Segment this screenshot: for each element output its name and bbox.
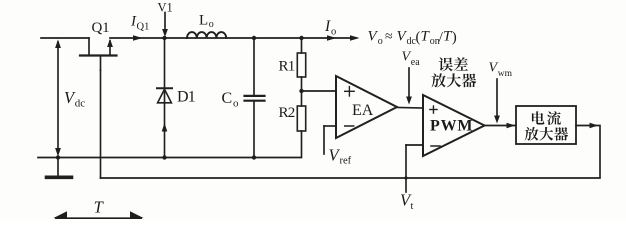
arrow IQ1 on rail (133, 35, 143, 40)
arrow T right (130, 211, 144, 219)
svg-text:t: t (411, 201, 414, 212)
resistor R2 (297, 106, 305, 131)
node Vea arrow (408, 68, 410, 100)
wire top rail left (41, 37, 89, 39)
svg-text:dc: dc (75, 98, 86, 110)
arrow Io on rail (327, 35, 337, 40)
inductor Lo (187, 32, 226, 38)
svg-text:o: o (233, 98, 239, 110)
wire top rail right (110, 37, 356, 39)
junction Vt / feedback (404, 176, 407, 179)
op-amp PWM (423, 95, 485, 156)
junction Co top (252, 36, 256, 40)
arrowheads (54, 29, 599, 219)
wire PWM inverting input (406, 144, 423, 146)
node V1 arrow (164, 13, 166, 31)
svg-text:R1: R1 (279, 59, 295, 75)
wire feedback loop (101, 126, 601, 179)
node Vwm arrow (496, 79, 498, 119)
svg-text:V1: V1 (158, 0, 173, 14)
svg-text:I: I (324, 18, 331, 35)
wire R1-R2 (301, 77, 303, 106)
arrow Vwm down (494, 116, 500, 124)
op-amp EA (336, 76, 397, 138)
arrow into box (507, 123, 516, 128)
wire EA output (397, 107, 423, 110)
svg-text:C: C (222, 90, 233, 107)
junction D1 bottom (162, 155, 166, 159)
label output formula (368, 29, 457, 48)
wire PWM output (485, 125, 517, 127)
junction R1 top (299, 36, 303, 40)
label current amplifier (Chinese) (525, 111, 568, 140)
wire bottom rail (38, 131, 302, 158)
svg-text:ea: ea (411, 57, 420, 68)
svg-text:R2: R2 (279, 105, 295, 121)
transistor Q1 (80, 38, 117, 70)
svg-text:L: L (199, 13, 208, 29)
svg-text:ref: ref (340, 156, 352, 167)
arrow Vea down (406, 97, 412, 105)
wire D1 branch (164, 38, 166, 158)
wire divider tap to EA (302, 90, 337, 92)
wire Q1 gate lead down (100, 70, 102, 178)
resistor R1 (297, 38, 305, 77)
junction Vdc return / ground (56, 155, 60, 159)
op-amp EA minus sign (345, 125, 354, 127)
op-amp EA plus sign (345, 87, 354, 96)
wire T span (55, 217, 142, 219)
wire EA inverting input (324, 125, 336, 127)
arrow feedback corner (590, 123, 599, 128)
arrow D1 current up (162, 123, 168, 132)
label error amplifier (Chinese) (432, 57, 477, 87)
svg-text:): ) (452, 30, 457, 46)
node Vt stub (405, 145, 407, 192)
op-amp PWM minus sign (431, 145, 440, 147)
node Vref stub (323, 126, 325, 154)
svg-text:Q1: Q1 (137, 22, 150, 33)
junction divider tap (299, 89, 303, 93)
junction Co bottom (252, 155, 256, 159)
arrow Vdc up (55, 40, 61, 49)
svg-text:PWM: PWM (430, 118, 473, 135)
diode D1 (157, 88, 172, 103)
block current amplifier box (516, 106, 576, 144)
svg-text:o: o (209, 19, 214, 30)
ground (47, 158, 72, 178)
svg-text:o: o (378, 36, 383, 47)
node Vdc arrow (57, 42, 59, 153)
arrow Vdc down (55, 148, 61, 157)
capacitor Co (245, 38, 265, 158)
arrow V1 down (162, 29, 168, 37)
junction node V1 / D1 top (162, 36, 166, 40)
arrow rail end (350, 35, 360, 40)
svg-text:EA: EA (352, 102, 374, 119)
arrow Q1 source up (107, 39, 113, 47)
op-amp PWM plus sign (430, 106, 437, 113)
svg-text:o: o (331, 27, 336, 38)
arrow T left (54, 211, 68, 219)
svg-text:wm: wm (498, 69, 513, 79)
svg-text:≈: ≈ (385, 30, 393, 45)
svg-text:Q1: Q1 (92, 20, 110, 36)
svg-text:D1: D1 (177, 89, 196, 106)
